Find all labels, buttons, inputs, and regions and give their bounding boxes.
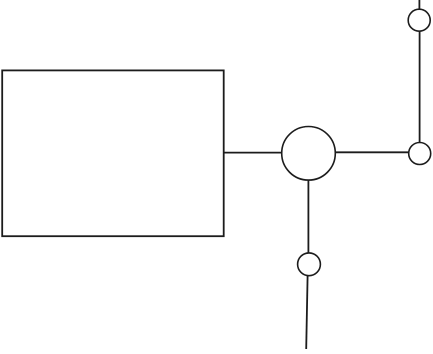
terminal node T2 bbox=[408, 9, 430, 31]
wire bbox=[307, 180, 309, 253]
junction circle J1 bbox=[282, 127, 336, 181]
wire bbox=[306, 276, 307, 349]
wire bbox=[418, 0, 420, 9]
wire bbox=[419, 31, 421, 143]
terminal node T1 bbox=[409, 143, 431, 165]
wire bbox=[224, 152, 282, 154]
wire bbox=[335, 151, 409, 153]
block U1 bbox=[2, 70, 224, 236]
terminal node T3 bbox=[298, 253, 321, 276]
